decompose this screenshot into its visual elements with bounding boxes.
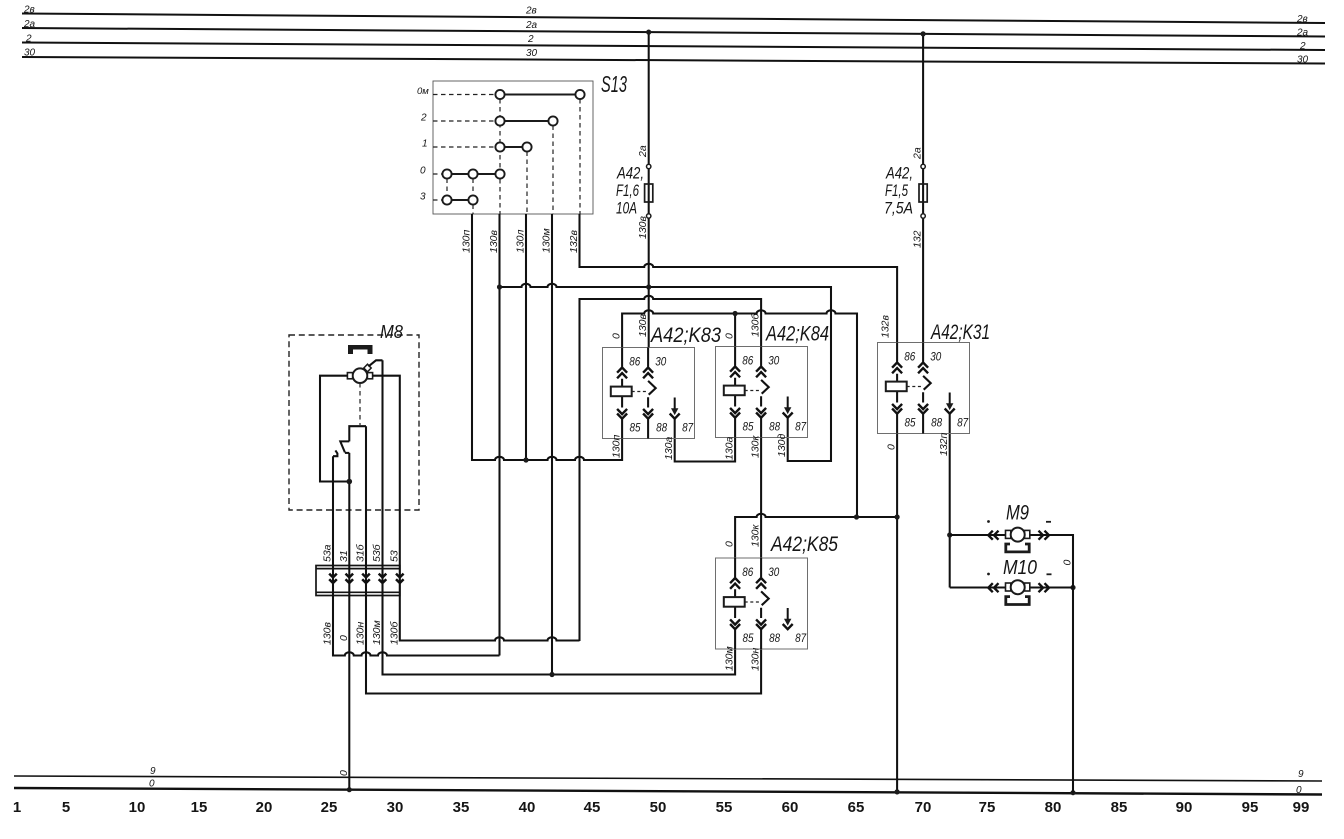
- svg-text:2а: 2а: [23, 19, 36, 30]
- svg-text:0: 0: [611, 333, 623, 339]
- svg-text:1: 1: [422, 139, 428, 150]
- svg-text:130в: 130в: [322, 621, 334, 645]
- svg-text:A42,: A42,: [885, 165, 913, 183]
- svg-text:M10: M10: [1003, 557, 1037, 579]
- svg-text:31б: 31б: [355, 543, 367, 562]
- svg-text:2а: 2а: [637, 145, 649, 158]
- svg-text:2в: 2в: [525, 6, 537, 17]
- svg-text:30: 30: [526, 48, 538, 59]
- svg-text:0: 0: [724, 541, 736, 547]
- svg-text:2в: 2в: [23, 5, 35, 16]
- svg-text:20: 20: [256, 799, 273, 816]
- svg-text:90: 90: [1176, 799, 1193, 816]
- svg-text:M8: M8: [380, 322, 403, 342]
- svg-text:45: 45: [584, 799, 601, 816]
- svg-text:0: 0: [420, 166, 426, 177]
- svg-text:130н: 130н: [750, 647, 762, 671]
- svg-text:0: 0: [886, 444, 898, 450]
- svg-text:A42;K85: A42;K85: [769, 533, 838, 556]
- svg-text:53б: 53б: [371, 543, 383, 562]
- svg-text:85: 85: [1111, 799, 1128, 816]
- svg-text:30: 30: [387, 799, 404, 816]
- svg-text:10A: 10A: [616, 200, 637, 218]
- svg-text:130а: 130а: [663, 436, 675, 460]
- svg-text:0: 0: [724, 333, 736, 339]
- svg-text:60: 60: [782, 799, 799, 816]
- svg-text:130м: 130м: [541, 228, 553, 253]
- svg-text:35: 35: [453, 799, 470, 816]
- svg-text:31: 31: [338, 550, 350, 562]
- svg-text:65: 65: [848, 799, 865, 816]
- svg-text:95: 95: [1242, 799, 1259, 816]
- svg-text:15: 15: [191, 799, 208, 816]
- svg-text:132п: 132п: [938, 432, 950, 456]
- svg-text:75: 75: [979, 799, 996, 816]
- svg-text:130а: 130а: [724, 436, 736, 460]
- svg-text:0: 0: [149, 779, 155, 790]
- svg-text:2: 2: [420, 113, 427, 124]
- svg-text:50: 50: [650, 799, 667, 816]
- svg-text:5: 5: [62, 799, 70, 816]
- svg-text:2: 2: [1299, 41, 1306, 52]
- svg-text:130п: 130п: [611, 434, 623, 458]
- svg-text:130м: 130м: [371, 620, 383, 645]
- svg-text:0м: 0м: [417, 86, 429, 97]
- svg-text:130к: 130к: [750, 434, 762, 458]
- svg-text:S13: S13: [601, 71, 627, 97]
- svg-text:0: 0: [1296, 785, 1302, 796]
- svg-text:1: 1: [13, 799, 21, 816]
- svg-text:7,5A: 7,5A: [884, 200, 913, 218]
- svg-text:F1,5: F1,5: [885, 182, 909, 200]
- svg-text:130м: 130м: [724, 646, 736, 671]
- svg-text:A42;K83: A42;K83: [649, 324, 721, 347]
- svg-text:2а: 2а: [912, 147, 924, 160]
- svg-text:2в: 2в: [1296, 14, 1308, 25]
- svg-text:A42;K31: A42;K31: [930, 321, 990, 344]
- svg-text:A42;K84: A42;K84: [764, 323, 829, 346]
- svg-text:130п: 130п: [461, 229, 473, 253]
- svg-text:130в: 130в: [488, 229, 500, 253]
- svg-text:70: 70: [915, 799, 932, 816]
- svg-text:3: 3: [420, 192, 426, 203]
- svg-text:M9: M9: [1006, 502, 1029, 525]
- svg-text:130б: 130б: [388, 620, 400, 645]
- svg-text:80: 80: [1045, 799, 1062, 816]
- svg-text:30: 30: [1297, 55, 1309, 66]
- svg-text:2: 2: [25, 34, 32, 45]
- svg-text:130к: 130к: [750, 523, 762, 547]
- svg-text:130н: 130н: [355, 621, 367, 645]
- svg-text:2: 2: [527, 34, 534, 45]
- svg-text:130б: 130б: [750, 312, 762, 337]
- svg-text:130в: 130в: [637, 215, 649, 239]
- svg-text:132: 132: [912, 230, 924, 248]
- svg-text:53: 53: [388, 550, 400, 562]
- svg-text:A42,: A42,: [616, 165, 644, 183]
- svg-text:F1,6: F1,6: [616, 182, 640, 200]
- svg-text:130л: 130л: [515, 229, 527, 253]
- svg-text:53а: 53а: [322, 544, 334, 562]
- svg-text:9: 9: [1298, 769, 1304, 780]
- svg-text:40: 40: [519, 799, 536, 816]
- svg-text:30: 30: [24, 48, 36, 59]
- svg-text:25: 25: [321, 799, 338, 816]
- svg-text:2а: 2а: [525, 20, 538, 31]
- svg-text:0: 0: [338, 635, 350, 641]
- svg-text:132в: 132в: [568, 229, 580, 253]
- svg-text:130в: 130в: [637, 313, 649, 337]
- svg-text:0: 0: [338, 770, 350, 776]
- svg-text:10: 10: [129, 799, 146, 816]
- svg-text:132в: 132в: [880, 314, 892, 338]
- svg-text:99: 99: [1293, 799, 1310, 816]
- svg-text:55: 55: [716, 799, 733, 816]
- svg-text:130д: 130д: [776, 433, 788, 457]
- svg-text:2а: 2а: [1296, 28, 1309, 39]
- svg-text:0: 0: [1062, 560, 1074, 566]
- svg-text:9: 9: [150, 766, 156, 777]
